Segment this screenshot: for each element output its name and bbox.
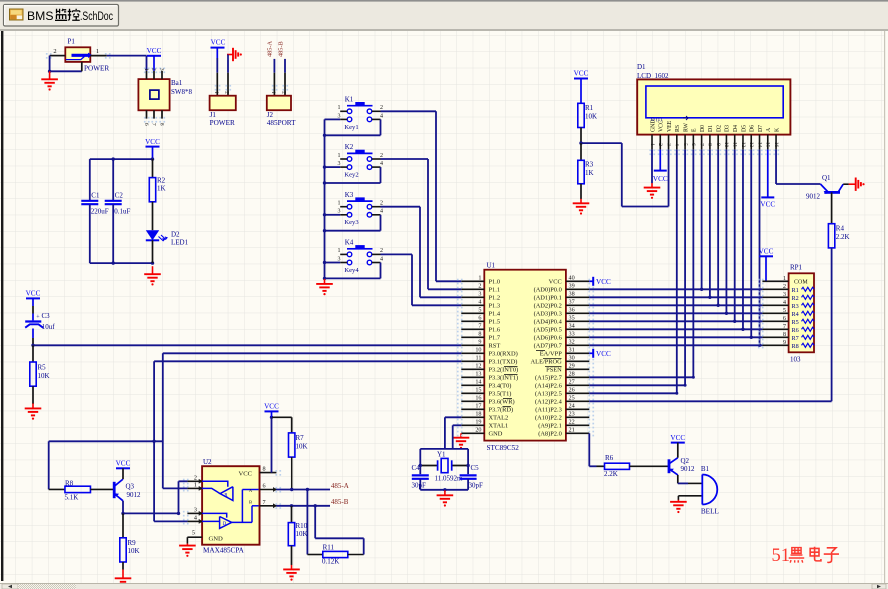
svg-text:16: 16	[475, 395, 481, 402]
svg-text:P1.3: P1.3	[489, 303, 501, 310]
svg-text:VCC: VCC	[596, 350, 611, 358]
svg-text:(AD5)P0.5: (AD5)P0.5	[534, 327, 562, 334]
svg-text:P1.7: P1.7	[489, 335, 501, 342]
svg-text:9012: 9012	[127, 491, 142, 499]
svg-text:E: E	[692, 128, 698, 132]
svg-text:(AD6)P0.6: (AD6)P0.6	[534, 335, 562, 342]
svg-text:R9: R9	[128, 539, 137, 547]
svg-text:8: 8	[159, 123, 165, 126]
svg-text:10K: 10K	[38, 372, 50, 380]
svg-text:3: 3	[338, 209, 341, 215]
svg-text:D5: D5	[741, 125, 747, 132]
svg-text:R5: R5	[38, 364, 47, 372]
svg-text:COM: COM	[794, 279, 808, 285]
svg-text:10K: 10K	[296, 530, 308, 538]
svg-text:1: 1	[96, 48, 99, 55]
svg-text:R10: R10	[296, 522, 308, 530]
svg-text:R3: R3	[792, 303, 799, 310]
svg-text:VCC: VCC	[596, 278, 611, 286]
svg-text:Q1: Q1	[822, 174, 831, 182]
svg-text:.SchDoc: .SchDoc	[80, 11, 113, 23]
svg-text:6: 6	[783, 316, 786, 322]
svg-text:VCC: VCC	[211, 38, 226, 46]
svg-text:P3.6(WR): P3.6(WR)	[489, 399, 515, 406]
svg-text:8: 8	[783, 332, 786, 338]
svg-text:VCC: VCC	[670, 434, 685, 442]
svg-text:12: 12	[475, 363, 481, 370]
svg-text:7: 7	[783, 324, 786, 330]
svg-text:P3.0(RXD): P3.0(RXD)	[489, 351, 518, 358]
svg-text:BMS: BMS	[27, 11, 54, 23]
svg-text:C1: C1	[91, 191, 100, 199]
svg-text:VCC: VCC	[549, 279, 562, 286]
svg-text:C2: C2	[115, 191, 124, 199]
svg-text:VCC: VCC	[760, 200, 775, 208]
svg-text:R11: R11	[323, 544, 335, 552]
svg-text:4: 4	[783, 300, 786, 306]
svg-text:9: 9	[783, 340, 786, 346]
svg-text:R1: R1	[585, 104, 594, 112]
svg-text:VCC: VCC	[26, 290, 41, 298]
svg-text:17: 17	[475, 403, 481, 410]
svg-text:33: 33	[569, 331, 575, 338]
svg-text:36: 36	[569, 307, 575, 314]
svg-text:11.0592m: 11.0592m	[435, 474, 463, 482]
svg-text:EA/VPP: EA/VPP	[540, 351, 562, 358]
svg-text:R2: R2	[157, 177, 166, 185]
svg-text:2.2K: 2.2K	[604, 470, 618, 478]
svg-text:4: 4	[478, 299, 481, 306]
svg-text:8: 8	[478, 331, 481, 338]
svg-text:D7: D7	[758, 125, 764, 132]
svg-text:20: 20	[475, 427, 481, 434]
svg-text:P1: P1	[68, 38, 76, 46]
svg-text:2: 2	[380, 248, 383, 254]
svg-text:34: 34	[569, 323, 575, 330]
svg-text:RS: RS	[675, 125, 681, 132]
svg-text:VCC: VCC	[116, 460, 131, 468]
svg-text:(AD7)P0.7: (AD7)P0.7	[534, 343, 563, 350]
svg-text:1: 1	[338, 153, 341, 159]
svg-text:31: 31	[569, 347, 575, 354]
svg-text:6: 6	[690, 143, 696, 146]
svg-text:(A12)P2.4: (A12)P2.4	[535, 399, 563, 406]
svg-text:485-B: 485-B	[331, 498, 349, 506]
svg-text:RP1: RP1	[790, 263, 803, 271]
svg-text:2: 2	[151, 68, 157, 71]
svg-text:(AD4)P0.4: (AD4)P0.4	[534, 319, 563, 326]
svg-text:5: 5	[783, 308, 786, 314]
svg-text:29: 29	[569, 363, 575, 370]
svg-text:10K: 10K	[128, 547, 140, 555]
svg-text:5: 5	[682, 143, 688, 146]
svg-text:1K: 1K	[157, 185, 166, 193]
svg-text:38: 38	[569, 291, 575, 298]
svg-text:R4: R4	[836, 225, 845, 233]
svg-text:3: 3	[194, 507, 197, 514]
svg-text:485-B: 485-B	[277, 41, 284, 57]
svg-text:3: 3	[338, 161, 341, 167]
svg-text:18: 18	[475, 411, 481, 418]
svg-text:P3.3(INT1): P3.3(INT1)	[489, 375, 519, 382]
svg-text:Key2: Key2	[344, 172, 358, 179]
svg-text:1: 1	[649, 143, 655, 146]
svg-text:12: 12	[740, 142, 746, 148]
svg-text:R6: R6	[792, 327, 799, 334]
svg-text:5.1K: 5.1K	[65, 494, 79, 502]
svg-text:23: 23	[569, 411, 575, 418]
svg-text:C4: C4	[412, 464, 421, 472]
svg-text:26: 26	[569, 387, 575, 394]
svg-text:B1: B1	[701, 465, 710, 473]
svg-text:D2: D2	[716, 125, 722, 132]
svg-text:10K: 10K	[585, 113, 597, 121]
svg-text:10uf: 10uf	[42, 323, 56, 331]
svg-text:1: 1	[194, 482, 197, 489]
svg-text:39: 39	[569, 283, 575, 290]
svg-text:VCC: VCC	[264, 403, 279, 411]
svg-text:0.1uF: 0.1uF	[114, 208, 130, 216]
svg-text:32: 32	[569, 339, 575, 346]
svg-text:8: 8	[707, 143, 713, 146]
svg-text:K2: K2	[345, 143, 354, 151]
svg-text:5: 5	[192, 529, 195, 536]
svg-text:2: 2	[194, 475, 197, 482]
svg-text:PSEN: PSEN	[546, 367, 562, 374]
svg-text:6: 6	[478, 315, 481, 322]
svg-text:U2: U2	[203, 458, 212, 466]
svg-text:5: 5	[478, 307, 481, 314]
svg-text:RW: RW	[683, 122, 689, 132]
svg-text:(A11)P2.3: (A11)P2.3	[535, 407, 562, 414]
svg-text:R6: R6	[605, 454, 614, 462]
svg-text:15: 15	[475, 387, 481, 394]
svg-text:(A15)P2.7: (A15)P2.7	[535, 375, 563, 382]
svg-text:K1: K1	[345, 96, 354, 104]
svg-text:1: 1	[338, 105, 341, 111]
svg-text:2: 2	[53, 48, 56, 55]
svg-text:4: 4	[380, 113, 383, 119]
svg-text:485PORT: 485PORT	[267, 119, 296, 127]
svg-text:3: 3	[478, 291, 481, 298]
svg-text:(A13)P2.5: (A13)P2.5	[535, 391, 562, 398]
svg-text:35: 35	[569, 315, 575, 322]
svg-text:(A14)P2.6: (A14)P2.6	[535, 383, 562, 390]
svg-text:15: 15	[765, 142, 771, 148]
svg-text:9: 9	[715, 143, 721, 146]
svg-text:30pF: 30pF	[469, 482, 484, 490]
svg-text:P3.4(T0): P3.4(T0)	[489, 383, 512, 390]
svg-text:J1: J1	[210, 111, 217, 119]
svg-text:8: 8	[263, 466, 266, 473]
svg-text:3: 3	[338, 256, 341, 262]
svg-text:4: 4	[380, 209, 383, 215]
svg-text:POWER: POWER	[84, 64, 109, 72]
svg-text:10K: 10K	[296, 443, 308, 451]
svg-text:Key1: Key1	[344, 124, 358, 131]
svg-text:VCC: VCC	[759, 248, 774, 256]
svg-text:13: 13	[475, 371, 481, 378]
svg-text:P1.1: P1.1	[489, 287, 501, 294]
svg-text:Q3: Q3	[126, 482, 135, 490]
svg-text:4: 4	[194, 515, 197, 522]
svg-text:25: 25	[569, 395, 575, 402]
svg-text:1: 1	[478, 275, 481, 282]
svg-text:R3: R3	[585, 161, 594, 169]
svg-text:24: 24	[569, 403, 575, 410]
svg-text:0.12K: 0.12K	[322, 557, 339, 565]
svg-text:7: 7	[263, 499, 266, 506]
svg-text:7: 7	[151, 123, 157, 126]
svg-text:2: 2	[478, 283, 481, 290]
svg-text:3: 3	[338, 113, 341, 119]
svg-text:MAX485CPA: MAX485CPA	[203, 546, 245, 554]
svg-text:P3.2(INT0): P3.2(INT0)	[489, 367, 519, 374]
svg-text:485-A: 485-A	[331, 482, 349, 490]
svg-text:R1: R1	[792, 287, 799, 294]
svg-text:LED1: LED1	[171, 239, 189, 247]
svg-text:BELL: BELL	[701, 507, 719, 515]
svg-text:4: 4	[380, 161, 383, 167]
svg-text:9012: 9012	[681, 465, 696, 473]
svg-text:ALE/PROG: ALE/PROG	[531, 359, 563, 366]
svg-text:RST: RST	[489, 343, 501, 350]
svg-text:1: 1	[270, 91, 276, 94]
svg-text:K4: K4	[345, 239, 354, 247]
svg-text:XTAL1: XTAL1	[489, 423, 509, 430]
svg-text:POWER: POWER	[210, 119, 235, 127]
svg-text:10: 10	[475, 347, 481, 354]
svg-text:Q2: Q2	[681, 457, 690, 465]
svg-text:C5: C5	[471, 464, 480, 472]
svg-text:1: 1	[783, 276, 786, 282]
svg-text:SW8*8: SW8*8	[171, 88, 193, 96]
svg-text:14: 14	[756, 142, 762, 148]
svg-text:30pF: 30pF	[412, 482, 427, 490]
svg-text:2: 2	[657, 143, 663, 146]
svg-text:R7: R7	[296, 434, 305, 442]
svg-text:D: D	[223, 522, 227, 527]
svg-text:9: 9	[478, 339, 481, 346]
svg-text:Y1: Y1	[437, 451, 446, 459]
svg-text:1K: 1K	[585, 169, 594, 177]
svg-text:P1.5: P1.5	[489, 319, 501, 326]
svg-text:22: 22	[569, 419, 575, 426]
svg-text:7: 7	[478, 323, 481, 330]
svg-text:Ba1: Ba1	[171, 79, 183, 87]
svg-text:4: 4	[674, 143, 680, 146]
svg-text:VCC: VCC	[147, 47, 162, 55]
svg-text:16: 16	[773, 142, 779, 148]
svg-text:P3.5(T1): P3.5(T1)	[489, 391, 512, 398]
svg-text:B: B	[249, 499, 252, 504]
svg-text:P1.0: P1.0	[489, 279, 501, 286]
svg-text:GND: GND	[489, 431, 503, 438]
svg-text:2: 2	[380, 105, 383, 111]
svg-text:D2: D2	[171, 231, 180, 239]
svg-text:3: 3	[665, 143, 671, 146]
svg-text:O: O	[651, 118, 655, 123]
svg-text:2.2K: 2.2K	[836, 233, 850, 241]
svg-text:R5: R5	[792, 319, 799, 326]
svg-text:14: 14	[475, 379, 481, 386]
svg-text:51: 51	[772, 546, 791, 566]
svg-text:(AD0)P0.0: (AD0)P0.0	[534, 287, 562, 294]
svg-text:485-A: 485-A	[267, 40, 274, 57]
svg-text:103: 103	[790, 355, 801, 363]
svg-text:1: 1	[338, 201, 341, 207]
svg-text:VCC: VCC	[145, 138, 160, 146]
svg-text:28: 28	[569, 371, 575, 378]
svg-text:1: 1	[213, 91, 219, 94]
svg-text:21: 21	[569, 427, 575, 434]
svg-text:3: 3	[783, 292, 786, 298]
svg-text:3: 3	[159, 68, 165, 71]
svg-text:D6: D6	[750, 125, 756, 132]
svg-text:(AD2)P0.2: (AD2)P0.2	[534, 303, 562, 310]
svg-text:D0: D0	[700, 125, 706, 132]
svg-text:19: 19	[475, 419, 481, 426]
svg-text:2: 2	[380, 153, 383, 159]
svg-text:1: 1	[143, 68, 149, 71]
svg-text:11: 11	[476, 355, 482, 362]
svg-text:10: 10	[723, 142, 729, 148]
svg-text:2: 2	[224, 91, 230, 94]
svg-text:U1: U1	[487, 261, 496, 269]
svg-text:37: 37	[569, 299, 575, 306]
svg-text:VCC: VCC	[653, 175, 668, 183]
svg-text:R7: R7	[792, 335, 799, 342]
svg-text:VCC: VCC	[239, 471, 253, 478]
svg-text:Key4: Key4	[344, 267, 359, 274]
svg-text:VEE: VEE	[667, 120, 673, 132]
svg-text:27: 27	[569, 379, 575, 386]
svg-text:1: 1	[338, 248, 341, 254]
svg-text:Key3: Key3	[344, 219, 359, 226]
svg-text:220uF: 220uF	[91, 208, 109, 216]
svg-text:R2: R2	[792, 295, 799, 302]
svg-text:(AD1)P0.1: (AD1)P0.1	[534, 295, 562, 302]
svg-text:J2: J2	[267, 111, 274, 119]
svg-text:K3: K3	[345, 191, 354, 199]
svg-text:6: 6	[143, 123, 149, 126]
svg-text:2: 2	[281, 91, 287, 94]
svg-text:GND: GND	[209, 536, 224, 543]
svg-text:STC89C52: STC89C52	[487, 444, 520, 452]
svg-text:VCC: VCC	[574, 70, 589, 78]
svg-text:(A10)P2.2: (A10)P2.2	[535, 415, 562, 422]
svg-text:(1): (1)	[656, 118, 662, 123]
svg-text:XTAL2: XTAL2	[489, 415, 509, 422]
svg-text:9012: 9012	[806, 193, 821, 201]
svg-text:2: 2	[783, 284, 786, 290]
svg-text:P3.1(TXD): P3.1(TXD)	[489, 359, 518, 366]
svg-text:D1: D1	[708, 125, 714, 132]
svg-text:D4: D4	[733, 125, 739, 132]
svg-text:7: 7	[698, 143, 704, 146]
svg-text:6: 6	[263, 483, 266, 490]
svg-text:P1.6: P1.6	[489, 327, 501, 334]
svg-text:R4: R4	[792, 311, 799, 318]
svg-text:(A8)P2.0: (A8)P2.0	[538, 431, 562, 438]
svg-text:D3: D3	[725, 125, 731, 132]
svg-text:C3: C3	[42, 312, 51, 320]
svg-text:P3.7(RD): P3.7(RD)	[489, 407, 514, 414]
svg-text:(AD3)P0.3: (AD3)P0.3	[534, 311, 562, 318]
svg-text:4: 4	[380, 256, 383, 262]
svg-text:D1: D1	[637, 63, 646, 71]
svg-text:P1.2: P1.2	[489, 295, 501, 302]
svg-text:R8: R8	[792, 343, 799, 350]
svg-text:2: 2	[380, 201, 383, 207]
svg-text:(A9)P2.1: (A9)P2.1	[538, 423, 562, 430]
svg-text:13: 13	[748, 142, 754, 148]
svg-text:R8: R8	[65, 479, 74, 487]
svg-text:P1.4: P1.4	[489, 311, 501, 318]
svg-text:30: 30	[569, 355, 575, 362]
svg-text:11: 11	[732, 142, 738, 148]
svg-text:40: 40	[569, 275, 575, 282]
